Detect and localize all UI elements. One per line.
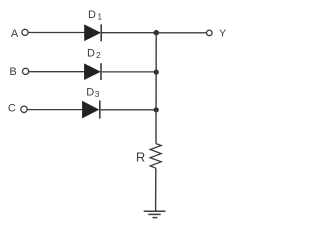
wire A to D1 anode xyxy=(28,32,84,34)
terminal B xyxy=(23,68,29,74)
svg-text:3: 3 xyxy=(95,89,100,99)
svg-text:D: D xyxy=(88,9,96,21)
label D3 xyxy=(86,86,100,99)
svg-text:D: D xyxy=(87,48,95,60)
svg-text:B: B xyxy=(9,66,16,78)
terminal Y xyxy=(207,30,213,36)
junction node row 2 xyxy=(154,70,159,75)
resistor R xyxy=(150,144,161,169)
wire D3 cathode to node xyxy=(101,109,157,111)
diode D2 xyxy=(84,63,101,80)
svg-text:2: 2 xyxy=(96,50,101,60)
wire B to D2 anode xyxy=(29,71,84,73)
svg-text:R: R xyxy=(136,149,145,164)
terminal A xyxy=(22,29,28,35)
label D2 xyxy=(87,48,101,61)
label D1 xyxy=(88,9,102,21)
diode D1 xyxy=(85,24,102,41)
wire C to D3 anode xyxy=(27,109,82,111)
svg-text:C: C xyxy=(8,103,16,115)
junction node row 3 xyxy=(154,107,159,112)
terminal C xyxy=(21,106,27,112)
wire D1 cathode to node xyxy=(102,32,156,34)
svg-text:D: D xyxy=(86,86,94,98)
svg-text:A: A xyxy=(11,28,19,40)
wire node to Y xyxy=(156,32,206,34)
svg-text:Y: Y xyxy=(219,27,226,39)
wire D2 cathode to node xyxy=(102,71,156,73)
svg-text:1: 1 xyxy=(97,11,102,21)
wire resistor to ground xyxy=(155,168,157,211)
ground xyxy=(144,211,166,217)
junction node row 1 xyxy=(154,30,159,35)
vertical bus wire from node Y down to resistor xyxy=(155,33,157,144)
diode D3 xyxy=(82,101,99,119)
